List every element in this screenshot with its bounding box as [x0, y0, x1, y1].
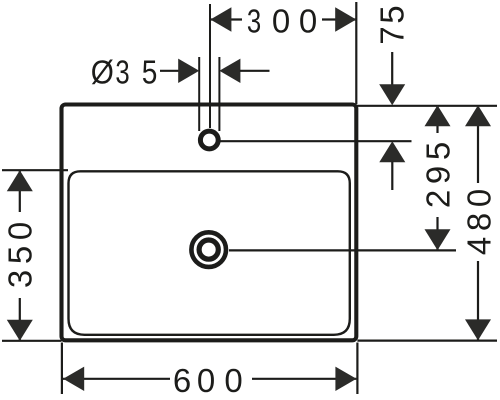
svg-text:0: 0 [299, 3, 317, 40]
drain outer circle [191, 232, 226, 267]
350 up arrowhead [7, 170, 33, 191]
svg-text:0: 0 [197, 362, 215, 399]
300 left arrowhead [210, 7, 231, 31]
75 dimension lower tail line [391, 162, 393, 190]
300 right arrowhead [335, 7, 356, 31]
300 dimension line left segment [210, 18, 242, 20]
75 up arrowhead [379, 141, 405, 162]
svg-text:3: 3 [115, 55, 129, 92]
svg-text:2: 2 [420, 190, 457, 208]
svg-text:5: 5 [142, 54, 158, 91]
svg-text:6: 6 [173, 362, 191, 399]
O35 right-pointing arrowhead [178, 59, 199, 83]
600 left arrowhead [63, 367, 84, 391]
600 right extension line [356, 343, 358, 395]
350 dimension line upper segment [19, 170, 21, 212]
350 dimension line lower segment [19, 298, 21, 341]
centre line of faucet hole (vertical) [209, 4, 211, 128]
svg-text:3: 3 [247, 4, 261, 41]
480 dimension line lower segment [477, 261, 479, 340]
svg-text:8: 8 [461, 213, 498, 231]
480 dimension line upper segment [477, 106, 479, 183]
faucet centre extension line to right [221, 140, 412, 142]
75 dimension upper line [391, 52, 393, 88]
inner basin rim (rounded) [69, 171, 350, 334]
295 down arrowhead [425, 229, 451, 250]
480 down arrowhead [465, 319, 491, 340]
svg-text:5: 5 [420, 142, 457, 160]
svg-text:Ø: Ø [91, 54, 114, 91]
295 dimension line upper segment [436, 106, 438, 133]
O35 left-pointing arrowhead [219, 59, 240, 83]
svg-text:9: 9 [420, 166, 457, 184]
svg-text:4: 4 [461, 237, 498, 255]
480 up arrowhead [465, 105, 491, 126]
295 dimension line lower segment [436, 217, 438, 250]
inner rim top extension line to left [2, 169, 68, 171]
75 down arrowhead [379, 84, 405, 105]
O35 dimension tail line right [240, 70, 270, 72]
svg-text:0: 0 [1, 222, 38, 240]
outer basin rectangle [62, 105, 357, 341]
600 right arrowhead [335, 367, 356, 391]
350 down arrowhead [7, 320, 33, 341]
faucet hole circle [200, 131, 218, 149]
600 left extension line [61, 343, 63, 395]
bottom edge extension line to right [357, 340, 497, 342]
left tangent extension line of faucet hole [198, 57, 200, 131]
svg-text:0: 0 [272, 3, 290, 40]
300 extension line top right (collinear with right edge) [355, 2, 357, 104]
svg-text:0: 0 [461, 189, 498, 207]
300 dimension line right segment [322, 18, 356, 20]
svg-text:0: 0 [224, 362, 242, 399]
295 up arrowhead [425, 105, 451, 126]
drain centre extension line to right [229, 249, 456, 251]
drain inner circle [199, 240, 218, 259]
O35 dimension line left of arrow [160, 70, 181, 72]
right tangent extension line of faucet hole [218, 57, 220, 131]
600 dimension line left segment [63, 378, 170, 380]
svg-text:5: 5 [1, 246, 38, 264]
600 dimension line right segment [252, 378, 356, 380]
top edge extension line to right [356, 105, 497, 107]
bottom edge extension line to left [2, 340, 62, 342]
svg-text:5: 5 [374, 5, 411, 23]
svg-text:7: 7 [374, 26, 411, 44]
svg-text:3: 3 [1, 270, 38, 288]
